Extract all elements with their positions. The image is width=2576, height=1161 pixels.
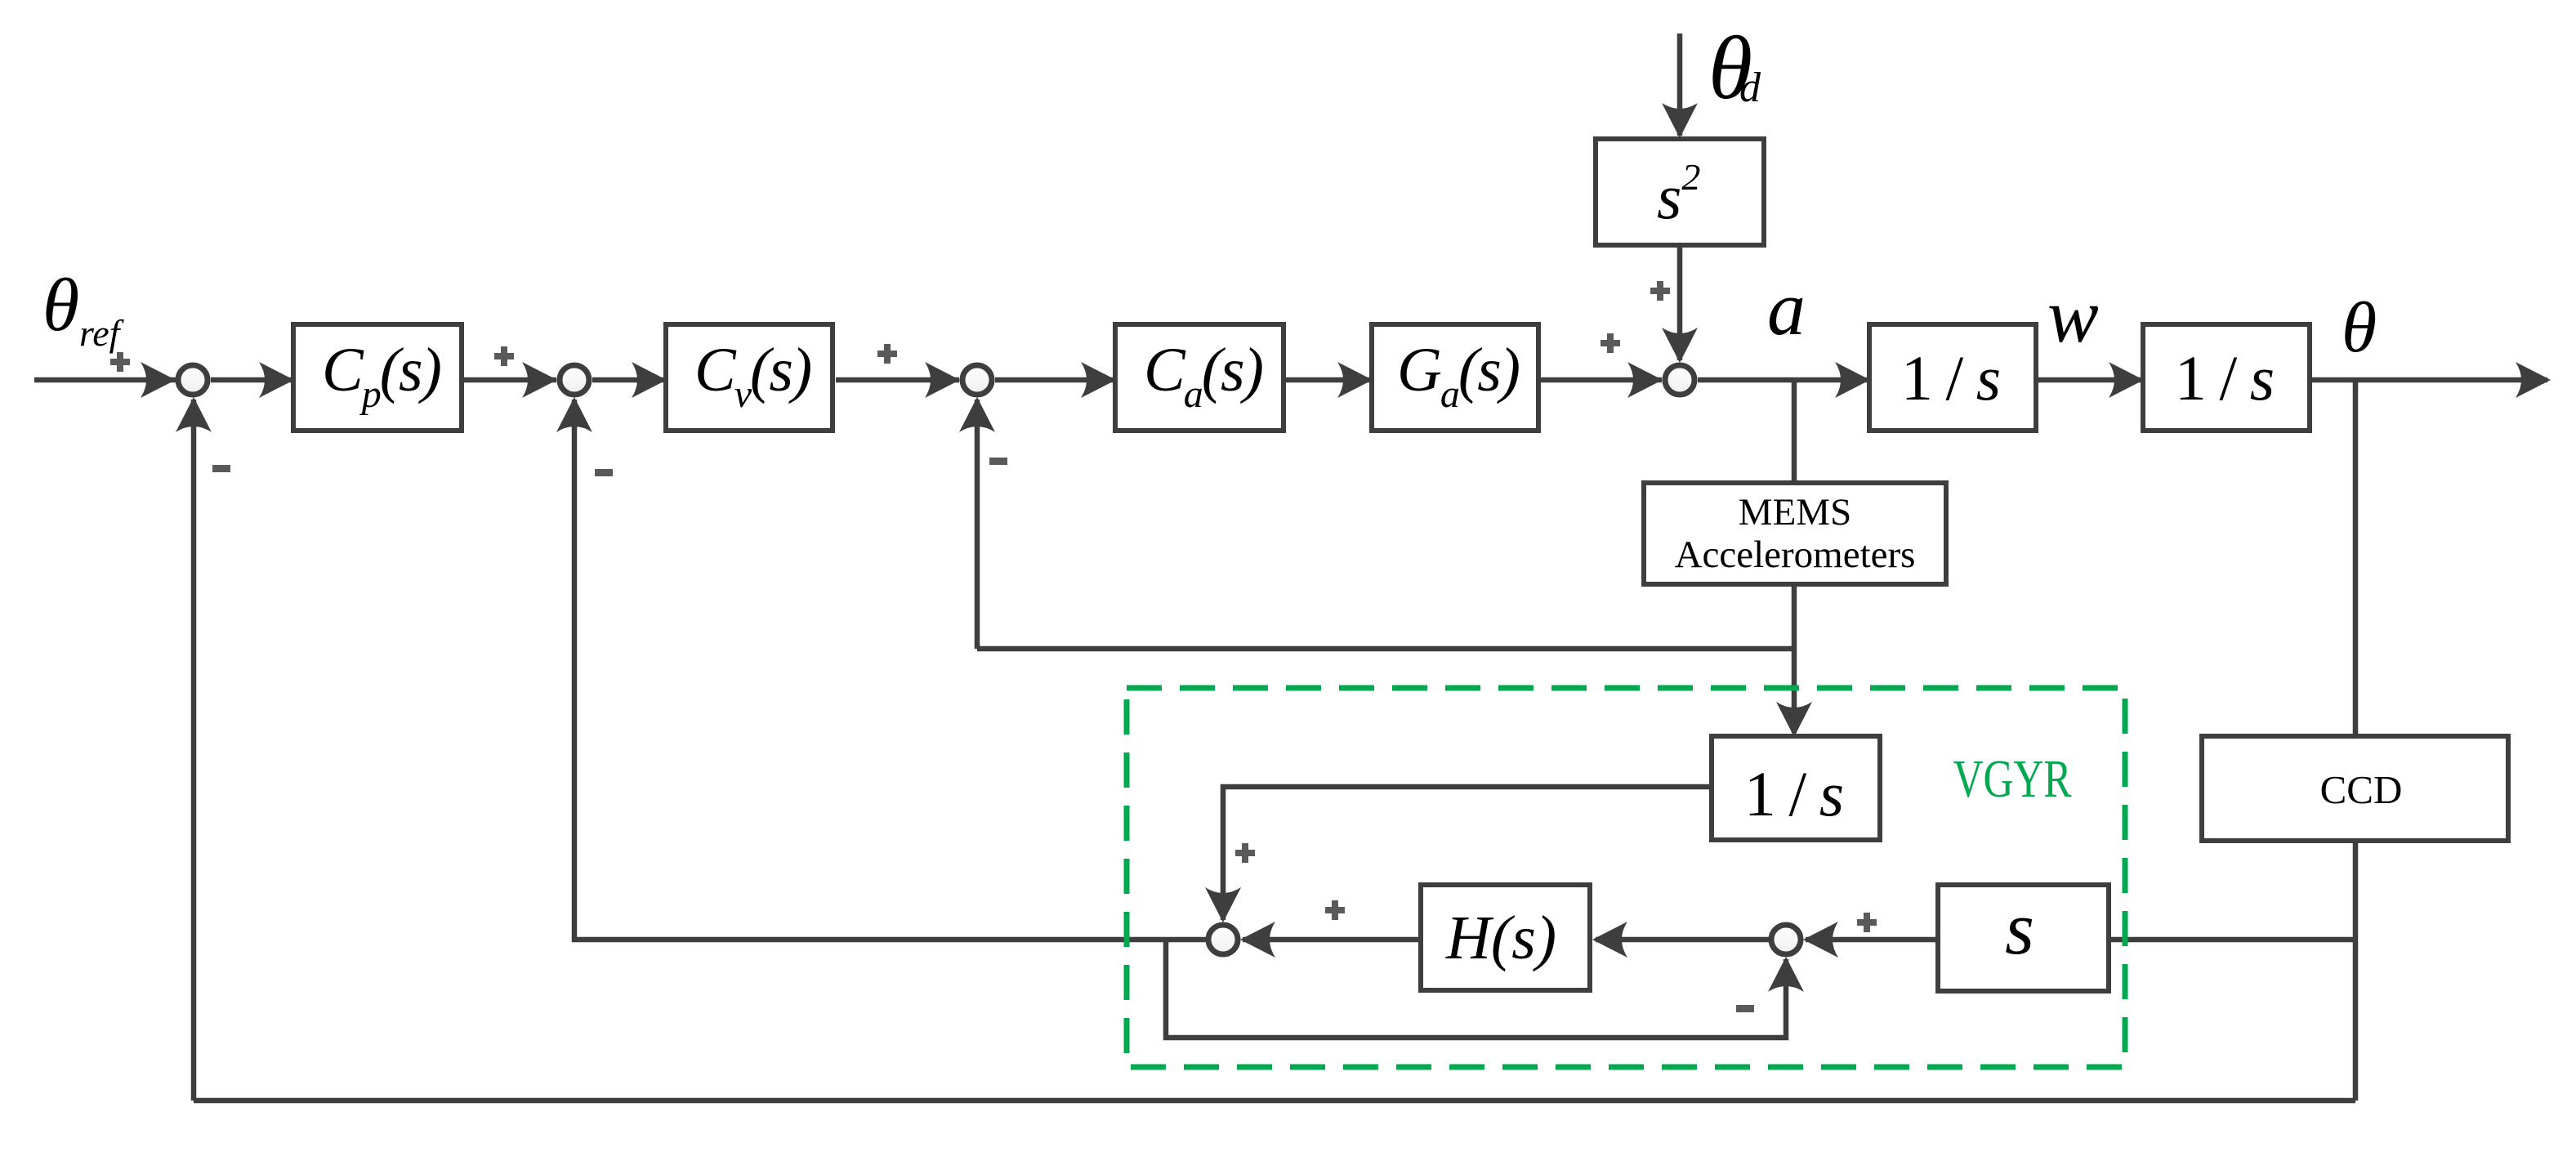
arrowhead into Cv (632, 362, 667, 398)
svg-text:a: a (1767, 266, 1806, 351)
wire Cv to summing junction S3 (836, 377, 959, 383)
arrowhead output end (2516, 362, 2551, 398)
svg-text:θ: θ (42, 263, 79, 346)
summing junction S1 (178, 365, 208, 395)
wire s2 to summing junction S4 (1677, 244, 1683, 360)
arrowhead into Cp (259, 362, 294, 398)
wire node a down to MEMS block (1792, 380, 1797, 480)
summing junction SR (VGYR right) (1771, 925, 1801, 954)
arrowhead into S1 left (141, 362, 176, 398)
svg-text:Ga(s): Ga(s) (1397, 336, 1519, 416)
block s rect (1938, 885, 2109, 991)
svg-text:Cv(s): Cv(s) (694, 336, 810, 416)
wire CCD output down (2353, 843, 2359, 1101)
wire summing junction SR to H(s) (1596, 937, 1770, 943)
arrowhead into VGYR 1/s top (1776, 702, 1812, 737)
block Cv(s) rect (666, 324, 833, 431)
wire MEMS output down to VGYR 1/s (1792, 587, 1797, 733)
svg-text:Accelerometers: Accelerometers (1675, 534, 1916, 576)
svg-text:MEMS: MEMS (1739, 491, 1851, 534)
arrowhead into Ga (1337, 362, 1373, 398)
arrowhead into 1/s first (1835, 362, 1870, 398)
minus sign at S3 bottom input (989, 458, 1007, 465)
wire block s to summing junction SR (1806, 937, 1936, 943)
wire input theta_ref to summing junction S1 (34, 377, 176, 383)
svg-text:θ: θ (2342, 288, 2377, 368)
arrowhead into S2 bottom (556, 397, 592, 432)
arrowhead into S3 bottom (959, 397, 995, 432)
arrowhead into H(s) right edge (1592, 922, 1627, 958)
plus sign at SR right input (1857, 913, 1877, 932)
wire SL output to S2 feedback (574, 400, 1207, 940)
wire output theta (2312, 377, 2547, 383)
minus sign at S1 bottom input (212, 465, 230, 472)
svg-text:Cp(s): Cp(s) (322, 336, 440, 416)
wire S4 to block 1/s (node a) (1698, 377, 1867, 383)
arrowhead into SL top (1205, 887, 1241, 922)
plus sign at SL right input (1325, 900, 1345, 920)
block CCD rect (2202, 736, 2508, 841)
block s2 rect (1596, 139, 1764, 245)
wire S2 to block Cv (592, 377, 664, 383)
block H(s) rect (1421, 885, 1590, 990)
svg-text:w: w (2047, 274, 2099, 359)
block VGYR integrator 1/s rect (1712, 736, 1880, 840)
minus sign at SR bottom input (1736, 1005, 1754, 1012)
wire Ca to block Ga (1286, 377, 1369, 383)
arrowhead into Ca (1081, 362, 1116, 398)
wire 1/s to 1/s (node w) (2038, 377, 2141, 383)
svg-text:1 / s: 1 / s (2175, 342, 2275, 413)
arrowhead theta_d into s2 (1662, 103, 1698, 138)
block Cp(s) rect (293, 324, 462, 431)
summing junction S4 (1665, 365, 1694, 395)
svg-text:ref: ref (79, 312, 125, 354)
block MEMS Accelerometers rect (1644, 483, 1946, 584)
block integrator 1/s first rect (1869, 324, 2036, 431)
wire theta_d input down to block s2 (1677, 33, 1683, 136)
arrowhead into SR bottom (1768, 957, 1804, 992)
arrowhead into SL right (1240, 922, 1275, 958)
wire accelerometer feedback horizontal (977, 646, 1794, 652)
VGYR dashed boundary box (1127, 688, 2125, 1067)
wire Ga to summing junction S4 (1541, 377, 1662, 383)
block Ca(s) rect (1115, 324, 1284, 431)
plus sign at SL top input (1235, 843, 1255, 863)
arrowhead into S3 left (925, 362, 960, 398)
plus sign at S3 input (877, 344, 897, 364)
arrowhead into S1 bottom (176, 397, 212, 432)
summing junction S3 (962, 365, 992, 395)
svg-text:CCD: CCD (2320, 767, 2403, 812)
wire VGYR 1/s output to summing junction SL (1223, 787, 1709, 920)
wire bottom feedback horizontal (194, 1098, 2355, 1104)
svg-text:d: d (1739, 65, 1761, 111)
minus sign at S2 bottom input (595, 469, 613, 476)
plus sign at S4 top input (1650, 281, 1670, 301)
arrowhead into S4 left (1627, 362, 1663, 398)
wire node theta down to CCD (2353, 380, 2359, 734)
svg-text:1 / s: 1 / s (1744, 758, 1844, 829)
summing junction SL (VGYR left) (1208, 925, 1238, 954)
wire S3 to block Ca (995, 377, 1115, 383)
summing junction S2 (560, 365, 589, 395)
svg-text:s: s (2005, 886, 2034, 970)
svg-text:H(s): H(s) (1445, 904, 1556, 972)
arrowhead into SR right (1803, 922, 1838, 958)
plus sign at S1 input (110, 352, 130, 372)
arrowhead into 1/s second (2109, 362, 2144, 398)
wire SL output tap down and into SR bottom (1166, 940, 1786, 1038)
block Ga(s) rect (1372, 324, 1538, 431)
arrowhead into S2 left (522, 362, 557, 398)
arrowhead s2 into S4 top (1662, 328, 1698, 363)
svg-text:Ca(s): Ca(s) (1144, 336, 1262, 416)
wire bottom feedback up into S1 (191, 400, 197, 1101)
wire SL to block H(s) (1243, 937, 1420, 943)
svg-text:VGYR: VGYR (1953, 749, 2072, 809)
wire accelerometer feedback up into S3 (975, 400, 980, 649)
plus sign at S4 left input (1601, 333, 1620, 353)
wire Cp to summing junction S2 (464, 377, 556, 383)
wire S1 to block Cp (211, 377, 292, 383)
block integrator 1/s second rect (2143, 324, 2310, 431)
svg-text:1 / s: 1 / s (1901, 342, 2001, 413)
plus sign at S2 input (494, 346, 514, 366)
wire theta line to block s (2109, 937, 2355, 943)
